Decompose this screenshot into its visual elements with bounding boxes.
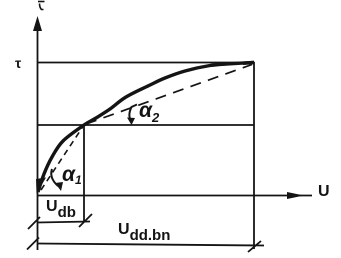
corner blob where curve meets tau line [243,61,254,65]
U axis arrowhead [287,192,304,199]
main curve [38,62,254,192]
alpha2 angle arc [129,105,137,123]
dimension slashes [27,214,261,252]
alpha1 angle arc [51,169,58,186]
middle horizontal line [37,124,255,126]
tau level line [37,62,255,64]
U_dd.bn dimension line [37,244,264,246]
vertical tick at curve crossing x=84 [83,125,85,222]
U_db dimension line [37,222,90,223]
t axis (vertical) [37,24,39,250]
t axis arrowhead [33,16,42,31]
dashed chord alpha1 [41,125,84,190]
dashed chord alpha2 [86,65,252,125]
t label (top) [38,2,45,10]
text labels [15,55,21,71]
U axis (horizontal) [37,195,312,197]
right vertical line [253,62,255,249]
curve start arrowhead at origin [36,178,46,195]
